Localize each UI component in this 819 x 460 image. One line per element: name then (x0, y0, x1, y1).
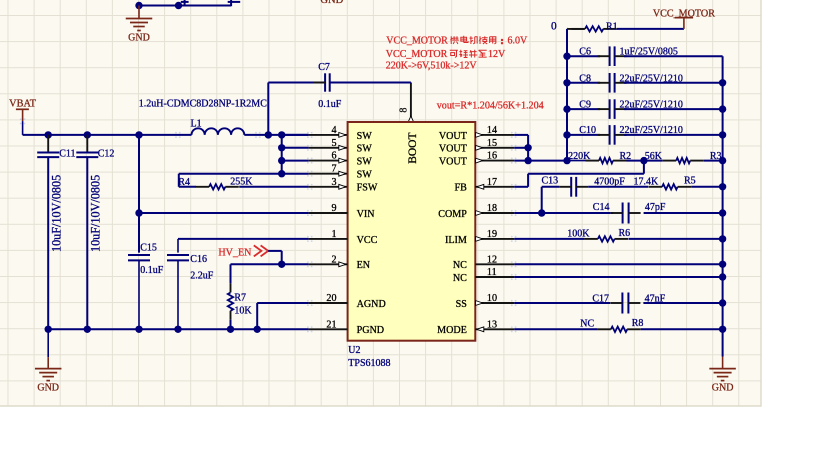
wire VBAT rail (23, 134, 309, 136)
svg-text:4: 4 (331, 125, 336, 136)
junction bus C6 (563, 53, 570, 60)
svg-text:17.4K: 17.4K (634, 176, 660, 187)
pin arrow right in (477, 184, 484, 189)
pin arrow right out (476, 211, 483, 216)
value R3 56K (645, 151, 663, 162)
pin name PGND (357, 325, 384, 336)
pin number 20 (326, 293, 336, 304)
pin stub top-left 2 (228, 0, 241, 6)
svg-text:10uF/10V/0805: 10uF/10V/0805 (88, 175, 102, 252)
power port VCC_MOTOR (653, 9, 715, 29)
label R7 (234, 293, 246, 304)
junction COMP C13 (538, 209, 545, 216)
svg-text:NC: NC (580, 319, 594, 330)
pin number 9 (331, 203, 336, 214)
resistor R4 (196, 184, 239, 189)
value C9 22uF/25V/1210 (620, 100, 683, 111)
svg-text:C14: C14 (593, 202, 610, 213)
wire cap bank left bus (566, 29, 568, 161)
junction right bus R6 (719, 235, 726, 242)
svg-text:R6: R6 (619, 228, 631, 239)
capacitor C14 (611, 203, 641, 224)
wire right bus (722, 56, 724, 356)
svg-text:R1: R1 (606, 21, 618, 32)
wire BOOT riser (410, 83, 412, 118)
pin arrow left (339, 145, 346, 150)
wire COMP to C14 (610, 212, 613, 214)
wire R4 top jog (179, 173, 282, 175)
wire SW pin6 (282, 160, 348, 162)
svg-text:VOUT: VOUT (439, 157, 467, 168)
pin name NC right (453, 260, 467, 271)
pin arrow right out (476, 133, 483, 138)
wire R1 to VCC_MOTOR (617, 28, 684, 30)
svg-text:56K: 56K (645, 151, 663, 162)
wire R6 to bus (629, 238, 723, 240)
wire NC pin11 (475, 276, 722, 278)
value R1 0 (551, 20, 557, 32)
pin number 5 (331, 138, 336, 149)
junction PGND C16 (174, 326, 181, 333)
svg-text:EN: EN (357, 260, 371, 271)
wire C17 to bus (643, 302, 722, 304)
resistor R6 (584, 236, 628, 241)
pin number 21 (326, 319, 336, 330)
svg-text:SW: SW (357, 157, 373, 168)
svg-text:COMP: COMP (438, 209, 467, 220)
pin arrow left (339, 184, 346, 189)
junction FB divider (640, 157, 647, 164)
wire VOUT pin15 (475, 147, 528, 149)
label R6 (619, 228, 631, 239)
svg-text:255K: 255K (230, 176, 253, 187)
pin arrow left (339, 133, 346, 138)
junction top-left B (175, 2, 182, 9)
label R2 (620, 151, 632, 162)
label C10 (579, 125, 596, 136)
svg-text:8: 8 (398, 108, 409, 113)
wire COMP pin18 (475, 212, 610, 214)
wire VIN bus vertical (138, 135, 140, 253)
svg-text:C13: C13 (542, 176, 559, 187)
wire top-left net (139, 5, 231, 7)
svg-text:vout=R*1.204/56K+1.204: vout=R*1.204/56K+1.204 (437, 100, 544, 111)
pin arrow left (339, 158, 346, 163)
svg-text:12V: 12V (488, 49, 506, 60)
junction top-left A (135, 2, 142, 9)
junction L1-C7 (265, 131, 272, 138)
label C11 (59, 149, 75, 160)
pin number 11 (487, 267, 497, 278)
junction VOUT net R2 (563, 157, 570, 164)
value R6 100K (567, 228, 590, 239)
wire SW pin7 (282, 173, 348, 175)
svg-text:C9: C9 (579, 100, 591, 111)
capacitor C9 (567, 99, 723, 119)
pin name SW (357, 144, 373, 155)
pin name NC right (453, 273, 467, 284)
wire VCC_MOTOR feed (567, 28, 584, 30)
label C15 (140, 243, 157, 254)
junction PGND C12 (84, 326, 91, 333)
junction right bus C9 (719, 105, 726, 112)
wire R4 left drop (178, 174, 180, 187)
inductor L1 (175, 128, 261, 138)
svg-text:C8: C8 (579, 73, 591, 84)
svg-text:22uF/25V/1210: 22uF/25V/1210 (620, 73, 683, 84)
wire C13 drop (541, 187, 543, 213)
value C12 10uF/10V/0805 (88, 175, 102, 252)
pin name SW (357, 157, 373, 168)
pin arrow right out (476, 145, 483, 150)
svg-text:SS: SS (456, 299, 467, 310)
label L1 (191, 119, 202, 130)
pin stub top-left 1 (181, 0, 189, 6)
wire C7 top right (330, 82, 411, 84)
pin number 13 (487, 319, 497, 330)
junction bus C9 (563, 105, 570, 112)
pin name VIN (357, 209, 376, 220)
wire R5 to bus (691, 186, 722, 188)
wire R4 left lead (179, 186, 196, 188)
junction VOUT16 (524, 157, 531, 164)
svg-text:6: 6 (331, 151, 336, 162)
svg-text:GND: GND (128, 32, 150, 43)
svg-text:1.2uH-CDMC8D28NP-1R2MC: 1.2uH-CDMC8D28NP-1R2MC (139, 99, 267, 110)
svg-text:GND: GND (712, 382, 734, 393)
wire SW pin4 (282, 134, 348, 136)
wire VOUT pin14 (475, 135, 528, 161)
pin name VOUT right (439, 131, 467, 142)
label R8 (632, 318, 644, 329)
junction right bus C17 (719, 299, 726, 306)
value C15 0.1uF (140, 265, 164, 276)
wire VCC pin1 (178, 238, 348, 240)
label C12 (98, 149, 115, 160)
wire VOUT pin16 (475, 160, 567, 162)
label C17 (592, 293, 609, 304)
pin number 2 (331, 254, 336, 265)
pin number 6 (331, 151, 336, 162)
pin number 4 (331, 125, 336, 136)
ground GND bottom-left (35, 329, 62, 393)
pin name EN (357, 260, 371, 271)
capacitor C8 (567, 73, 723, 93)
capacitor C12 (76, 135, 98, 329)
junction right bus C14 (719, 209, 726, 216)
svg-text:0.1uF: 0.1uF (318, 99, 342, 110)
svg-text:R5: R5 (684, 176, 696, 187)
pin number 18 (487, 203, 497, 214)
svg-text:FB: FB (455, 183, 468, 194)
label C9 (579, 100, 591, 111)
svg-text:L1: L1 (191, 119, 202, 130)
capacitor C13 (559, 177, 588, 197)
wire R7 to ground (230, 320, 232, 330)
value R8 NC (580, 319, 594, 330)
svg-text:AGND: AGND (357, 299, 386, 310)
capacitor C6 (567, 46, 723, 66)
svg-text:VCC_MOTOR: VCC_MOTOR (386, 35, 448, 46)
svg-text:C10: C10 (579, 125, 596, 136)
ground GND top-left (126, 6, 153, 44)
capacitor C16 (167, 239, 189, 329)
wire VIN pin9 (139, 212, 348, 214)
pin name AGND (357, 299, 386, 310)
wire SW column (281, 135, 283, 174)
svg-text:GND: GND (320, 0, 343, 6)
svg-text:VBAT: VBAT (9, 99, 37, 110)
junction C12 (84, 131, 91, 138)
svg-text:C6: C6 (579, 47, 591, 58)
pin name VOUT right (439, 144, 467, 155)
pin number 8 rotated (398, 108, 409, 113)
wire R8 to bus (641, 328, 723, 330)
pin arrow right in (477, 327, 484, 332)
wire R2 lead (567, 160, 586, 162)
value C10 22uF/25V/1210 (620, 125, 683, 136)
wire SW pin5 (282, 147, 348, 149)
label C16 (190, 254, 207, 265)
junction PGND R7 (227, 326, 234, 333)
svg-text:R7: R7 (234, 293, 246, 304)
pin number 14 (487, 125, 497, 136)
pin number 3 (331, 177, 336, 188)
capacitor C11 (37, 135, 59, 329)
wire EN to R7 (231, 264, 282, 283)
power port VBAT (9, 99, 37, 135)
value C13 4700pF (594, 176, 625, 187)
junction right bus NC12 (719, 261, 726, 268)
svg-text:100K: 100K (567, 228, 590, 239)
ground GND bottom-right (709, 357, 736, 394)
pin number 15 (487, 138, 497, 149)
wire MODE pin13 (475, 328, 597, 330)
label R4 (178, 177, 190, 188)
pin name MODE right (437, 325, 467, 336)
svg-text:R8: R8 (632, 318, 644, 329)
label R5 (684, 176, 696, 187)
svg-text:HV_EN: HV_EN (218, 248, 252, 259)
svg-text:C16: C16 (190, 254, 207, 265)
svg-text:C11: C11 (59, 149, 75, 160)
capacitor C15 (128, 253, 150, 330)
svg-text:22uF/25V/1210: 22uF/25V/1210 (620, 100, 683, 111)
wire FSW pin3 (239, 186, 347, 188)
svg-text:TPS61088: TPS61088 (348, 358, 390, 369)
junction SW6 (278, 157, 285, 164)
junction PGND C15 (135, 326, 142, 333)
junction bus C8 (563, 79, 570, 86)
svg-text:PGND: PGND (357, 325, 384, 336)
wire EN from port (268, 251, 282, 264)
svg-text:BOOT: BOOT (407, 132, 419, 163)
resistor R1 (571, 26, 616, 31)
IC U2 TPS61088 body (348, 122, 476, 341)
svg-text:R4: R4 (178, 177, 190, 188)
junction right bus R3 (719, 157, 726, 164)
pin U2 BOOT 8 arrow (408, 116, 414, 122)
label C13 (542, 176, 559, 187)
pin number 16 (487, 151, 497, 162)
wire FB pin17 (475, 161, 644, 187)
label C6 (579, 47, 591, 58)
label R3 (710, 151, 722, 162)
svg-text:220K->6V,510k->12V: 220K->6V,510k->12V (386, 61, 478, 72)
svg-text:VCC_MOTOR: VCC_MOTOR (386, 49, 448, 60)
capacitor C7 (313, 73, 342, 91)
annotation vout formula (437, 100, 544, 111)
svg-text:SW: SW (357, 144, 373, 155)
pin name FB right (455, 183, 468, 194)
wire AGND pin20 (257, 303, 347, 329)
pin number 17 (487, 177, 497, 188)
junction C11 (45, 131, 52, 138)
value C7 0.1uF (318, 99, 342, 110)
junction EN (278, 261, 285, 268)
capacitor C10 (567, 125, 723, 145)
value C11 10uF/10V/0805 (49, 175, 63, 252)
pin number 12 (487, 254, 497, 265)
wire PGND rail (48, 328, 347, 330)
value C14 47pF (645, 202, 666, 213)
svg-text:U2: U2 (348, 345, 360, 356)
wire R2-R3 (627, 160, 663, 162)
resistor R2 (586, 158, 627, 163)
svg-text:2.2uF: 2.2uF (190, 270, 214, 281)
svg-text:ILIM: ILIM (445, 235, 467, 246)
svg-text:22uF/25V/1210: 22uF/25V/1210 (620, 125, 683, 136)
ground GND top-center clipped text (320, 0, 343, 6)
junction right bus C10 (719, 131, 726, 138)
wire C13 lead (542, 186, 560, 188)
pin arrow left (339, 171, 346, 176)
pin arrow left (339, 262, 346, 267)
svg-text:VOUT: VOUT (439, 144, 467, 155)
wire R3 to bus (704, 160, 723, 162)
value TPS61088 (348, 358, 390, 369)
pin number 7 (331, 164, 336, 175)
svg-text:5: 5 (331, 138, 336, 149)
value R7 10K (234, 305, 252, 316)
junction PGND C11 (45, 326, 52, 333)
pin name FSW (357, 183, 378, 194)
capacitor C17 (610, 293, 640, 314)
junction SW column top (278, 131, 285, 138)
pin name SW (357, 170, 373, 181)
pin name ILIM right (445, 235, 467, 246)
junction VIN (135, 209, 142, 216)
value C16 2.2uF (190, 270, 214, 281)
svg-text:MODE: MODE (437, 325, 467, 336)
value R2 220K (568, 151, 591, 162)
junction SW7 (278, 170, 285, 177)
value C8 22uF/25V/1210 (620, 73, 683, 84)
resistor R8 (597, 327, 640, 332)
wire C7 left riser (267, 83, 269, 135)
svg-text:VIN: VIN (357, 209, 376, 220)
pin name VOUT right (439, 157, 467, 168)
value L1 1.2uH-CDMC8D28NP-1R2MC (139, 99, 267, 110)
annotation 220K-6V 510k-12V (386, 61, 478, 72)
pin name SW (357, 131, 373, 142)
svg-text:10uF/10V/0805: 10uF/10V/0805 (49, 175, 63, 252)
svg-text:VCC: VCC (357, 235, 378, 246)
pin connection markers (307, 132, 516, 333)
svg-text:10K: 10K (234, 305, 252, 316)
pin name SS right (456, 299, 467, 310)
junction main bus (135, 131, 142, 138)
pin number 1 (331, 229, 336, 240)
pin arrow right out (476, 237, 483, 242)
svg-text:C15: C15 (140, 243, 157, 254)
junction right bus R8 (719, 326, 726, 333)
pin number 19 (487, 229, 497, 240)
wire C14 to bus (644, 212, 723, 214)
value R4 255K (230, 176, 253, 187)
pin arrow right out (476, 158, 483, 163)
wire C13-R5 (588, 186, 648, 188)
svg-text:4700pF: 4700pF (594, 176, 625, 187)
svg-text:VOUT: VOUT (439, 131, 467, 142)
resistor R3 (663, 158, 704, 163)
svg-text:GND: GND (37, 382, 59, 393)
value R5 17.4K (634, 176, 660, 187)
svg-text:FSW: FSW (357, 183, 378, 194)
label C14 (593, 202, 610, 213)
svg-text:SW: SW (357, 131, 373, 142)
junction SW5 (278, 144, 285, 151)
junction VOUT15 (524, 144, 531, 151)
svg-text:1uF/25V/0805: 1uF/25V/0805 (620, 47, 678, 58)
svg-text:47pF: 47pF (645, 202, 666, 213)
svg-text:C12: C12 (98, 149, 115, 160)
svg-text:0.1uF: 0.1uF (140, 265, 164, 276)
label C8 (579, 73, 591, 84)
svg-text:3: 3 (331, 177, 336, 188)
designator U2 (348, 345, 360, 356)
resistor R7 (228, 283, 233, 319)
svg-text:6.0V: 6.0V (508, 35, 529, 46)
pin name VCC (357, 235, 378, 246)
label R1 (606, 21, 618, 32)
junction PGND AGND (254, 326, 261, 333)
wire C7 top left (268, 82, 325, 84)
pin number 10 (487, 293, 497, 304)
pin arrow right out (476, 301, 483, 306)
pin name COMP right (438, 209, 467, 220)
svg-text:7: 7 (331, 164, 336, 175)
wire EN pin2 (282, 263, 348, 265)
pin name BOOT (407, 132, 419, 163)
svg-text:NC: NC (453, 260, 467, 271)
svg-text:SW: SW (357, 170, 373, 181)
value C17 47nF (645, 293, 666, 304)
svg-text:0: 0 (551, 20, 557, 32)
label C7 (318, 62, 330, 73)
annotation VCC_MOTOR usage 6.0V (386, 35, 528, 46)
svg-text:C7: C7 (318, 62, 330, 73)
wire NC pin12 (475, 263, 722, 265)
wire SS pin10 (475, 302, 610, 304)
junction right bus NC11 (719, 273, 726, 280)
svg-text:C17: C17 (592, 293, 609, 304)
port HV_EN (218, 245, 268, 258)
value C6 1uF/25V/0805 (620, 47, 678, 58)
junction bus C10 (563, 131, 570, 138)
annotation VCC_MOTOR up to 12V (386, 49, 506, 60)
junction right bus R5 (719, 183, 726, 190)
